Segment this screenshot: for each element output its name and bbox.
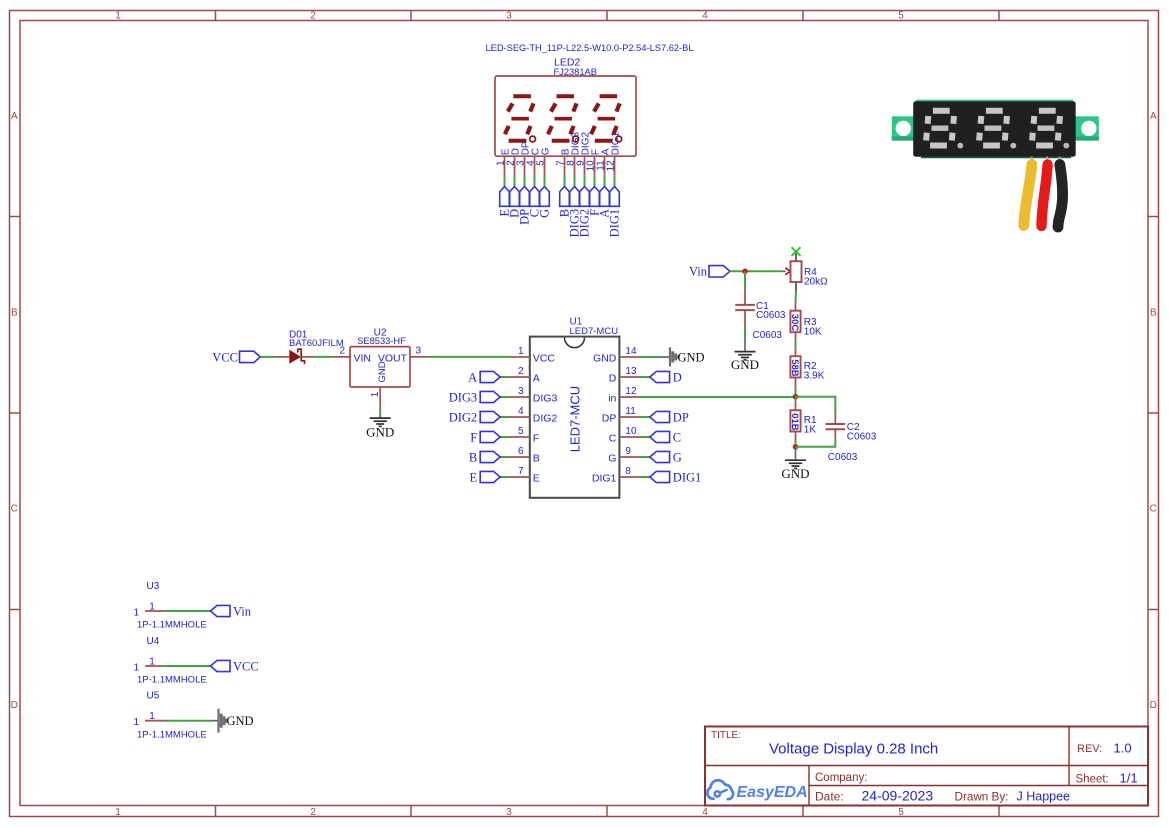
U1 pin 5 (F) left	[510, 426, 539, 444]
LED2 pin 10 (F) stub, number and name	[585, 149, 601, 176]
svg-text:3: 3	[506, 807, 512, 818]
LED2 pin 2 (D) stub, number and name	[505, 148, 521, 176]
wire U5 pin 1 to GND	[165, 720, 211, 722]
svg-text:DIG1: DIG1	[673, 470, 701, 484]
svg-text:C: C	[11, 503, 18, 514]
svg-text:DIG1: DIG1	[608, 209, 622, 237]
svg-text:10: 10	[625, 426, 637, 437]
U1 pin 10 (C) right	[609, 426, 640, 444]
wire U1 pin 11 to port DP	[639, 416, 649, 418]
trimmer R4 20k	[781, 253, 828, 288]
svg-text:1P-1.1MMHOLE: 1P-1.1MMHOLE	[137, 729, 207, 740]
wire U1 pin 10 to port C	[639, 436, 649, 438]
svg-text:A: A	[1150, 111, 1157, 122]
svg-text:1: 1	[133, 607, 139, 618]
svg-text:3: 3	[518, 386, 524, 397]
svg-text:E: E	[533, 472, 540, 484]
svg-text:13: 13	[625, 366, 637, 377]
svg-text:B: B	[469, 450, 477, 464]
svg-text:1K: 1K	[804, 425, 817, 436]
svg-text:C: C	[609, 432, 617, 444]
wire U1 pin 14 to ground	[639, 356, 660, 358]
svg-text:12: 12	[625, 386, 637, 397]
LED2 pin 12 (DIG1) stub, number and name	[605, 132, 621, 176]
svg-text:7: 7	[518, 466, 524, 477]
svg-text:C: C	[1150, 503, 1157, 514]
svg-text:F: F	[470, 430, 477, 444]
svg-text:DP: DP	[673, 410, 689, 424]
port B (U1 pin 6)	[469, 450, 500, 464]
port D (LED2 pin 2)	[508, 187, 522, 218]
wire LED2 pin 1 to port E	[504, 176, 506, 187]
svg-text:TITLE:: TITLE:	[711, 730, 741, 741]
regulator U2 SE8533-HF	[331, 327, 430, 408]
svg-text:Sheet:: Sheet:	[1076, 774, 1109, 786]
wire U1 pin 9 to port G	[639, 456, 649, 458]
LED2 digit 2 segments	[548, 96, 579, 142]
svg-text:A: A	[11, 111, 18, 122]
LED2 pin 7 (B) stub, number and name	[555, 148, 571, 176]
svg-text:A: A	[533, 372, 540, 384]
wire VCC port to D01 anode	[260, 356, 275, 358]
resistor R3 10K	[789, 302, 822, 341]
connector U3 1P-1.1MMHOLE	[133, 581, 206, 631]
wire port F to U1 pin 5	[500, 436, 510, 438]
IC U1 LED7-MCU	[530, 317, 620, 498]
svg-text:2: 2	[340, 345, 346, 356]
svg-text:E: E	[470, 470, 478, 484]
svg-text:3.9K: 3.9K	[804, 371, 825, 382]
svg-text:8: 8	[625, 466, 631, 477]
svg-text:2: 2	[310, 807, 316, 818]
wire LED2 pin 10 to port F	[594, 176, 596, 187]
wire LED2 pin 5 to port G	[544, 176, 546, 187]
wire LED2 pin 7 to port B	[564, 176, 566, 187]
junction Vin/C1	[742, 269, 748, 275]
svg-text:G: G	[673, 450, 682, 464]
svg-text:GND: GND	[731, 357, 759, 372]
svg-text:F: F	[533, 432, 539, 444]
svg-text:1.0: 1.0	[1114, 741, 1132, 756]
resistor R1 1K	[789, 397, 817, 440]
svg-text:24-09-2023: 24-09-2023	[862, 788, 934, 804]
svg-text:01B: 01B	[789, 413, 800, 431]
diode D01 BAT60JFILM	[275, 330, 344, 365]
svg-text:1/1: 1/1	[1120, 771, 1138, 786]
ground GND at U5	[211, 709, 254, 733]
connector U5 1P-1.1MMHOLE	[133, 691, 206, 741]
svg-text:BAT60JFILM: BAT60JFILM	[289, 338, 344, 349]
resistor R2 3.9K	[789, 348, 825, 386]
svg-text:DIG3: DIG3	[533, 392, 558, 404]
svg-text:EasyEDA: EasyEDA	[737, 784, 808, 801]
ground GND under C1	[731, 343, 759, 372]
svg-text:Vin: Vin	[689, 265, 708, 279]
port DIG3 (LED2 pin 8)	[568, 187, 582, 238]
svg-text:1: 1	[115, 807, 121, 818]
svg-text:LED-SEG-TH_11P-L22.5-W10.0-P2.: LED-SEG-TH_11P-L22.5-W10.0-P2.54-LS7.62-…	[485, 43, 693, 53]
svg-text:DIG2: DIG2	[533, 412, 558, 424]
port G (U1 pin 9)	[650, 450, 682, 464]
svg-text:U3: U3	[147, 581, 160, 592]
wire port DIG2 to U1 pin 4	[500, 416, 510, 418]
wire LED2 pin 11 to port A	[604, 176, 606, 187]
svg-text:DIG2: DIG2	[449, 410, 477, 424]
wire R2 to junction	[795, 386, 797, 397]
port D (U1 pin 13)	[650, 370, 682, 384]
svg-text:Drawn By:: Drawn By:	[955, 791, 1009, 804]
svg-text:30C: 30C	[789, 314, 800, 332]
LED2 pin 4 (C) stub, number and name	[525, 148, 541, 176]
U1 pin 14 (GND) right	[593, 346, 639, 364]
ground GND under U2	[366, 414, 394, 440]
wire port A to U1 pin 2	[500, 376, 510, 378]
part LED2 FJ2381AB 7-segment display symbol	[485, 43, 693, 237]
svg-text:4: 4	[702, 807, 708, 818]
svg-text:DIG3: DIG3	[449, 390, 477, 404]
wire R3 to R2	[795, 341, 797, 349]
port Vin	[689, 265, 730, 279]
port B (LED2 pin 7)	[558, 187, 572, 218]
junction R1/C2/GND	[793, 444, 799, 450]
wire U1 pin 13 to port D	[639, 376, 649, 378]
U1 pin 4 (DIG2) left	[510, 406, 557, 424]
port E (U1 pin 7)	[470, 470, 501, 484]
svg-text:1: 1	[133, 717, 139, 728]
svg-text:D: D	[609, 372, 617, 384]
wire R1 to bottom junction	[795, 440, 797, 447]
ground GND at U1 pin 14	[660, 347, 705, 366]
svg-text:G: G	[540, 147, 551, 155]
wire LED2 pin 12 to port DIG1	[614, 176, 616, 187]
port DIG1 (U1 pin 8)	[650, 470, 701, 484]
U1 pin 6 (B) left	[510, 446, 540, 464]
U1 pin 2 (A) left	[510, 366, 540, 384]
svg-text:G: G	[538, 209, 552, 218]
svg-text:VCC: VCC	[212, 350, 238, 364]
svg-text:1: 1	[149, 656, 155, 667]
svg-text:REV:: REV:	[1077, 743, 1102, 755]
LED2 pin 5 (G) stub, number and name	[535, 147, 551, 176]
svg-text:VIN: VIN	[354, 352, 372, 364]
svg-text:GND: GND	[593, 352, 617, 364]
svg-text:GND: GND	[227, 714, 254, 728]
wire R4 bottom to R3 top	[795, 282, 798, 302]
svg-text:B: B	[1150, 307, 1157, 318]
port Vin (U3)	[211, 604, 252, 618]
wire D01 cathode to U2 VIN	[314, 356, 331, 358]
LED2 digit 3 segments	[591, 96, 622, 142]
wire LED2 pin 3 to port DP	[524, 176, 526, 187]
wire port E to U1 pin 7	[500, 476, 510, 478]
svg-text:1P-1.1MMHOLE: 1P-1.1MMHOLE	[137, 675, 207, 686]
port DIG1 (LED2 pin 12)	[608, 187, 622, 238]
LED2 pin 8 (DIG3) stub, number and name	[565, 132, 581, 176]
svg-text:14: 14	[625, 346, 637, 357]
svg-text:U5: U5	[147, 691, 160, 702]
svg-text:GND: GND	[366, 424, 394, 439]
port A (U1 pin 2)	[468, 370, 500, 384]
U1 pin 12 (in) right	[608, 386, 639, 404]
svg-text:C0603: C0603	[756, 310, 786, 321]
wire LED2 pin 4 to port C	[534, 176, 536, 187]
svg-text:3: 3	[416, 345, 422, 356]
svg-text:B: B	[533, 452, 540, 464]
LED2 pin 11 (A) stub, number and name	[595, 148, 611, 176]
svg-text:GND: GND	[377, 361, 388, 382]
U1 pin 9 (G) right	[608, 446, 639, 464]
U1 pin 1 (VCC) left	[510, 346, 555, 364]
svg-text:J Happee: J Happee	[1017, 790, 1071, 804]
svg-text:9: 9	[625, 446, 631, 457]
svg-text:LED7-MCU: LED7-MCU	[570, 326, 619, 337]
svg-text:C0603: C0603	[828, 452, 858, 463]
svg-text:6: 6	[518, 446, 524, 457]
title block	[705, 727, 1148, 806]
no-connect flag X on R4 top	[792, 247, 801, 256]
svg-text:Voltage Display 0.28 Inch: Voltage Display 0.28 Inch	[769, 741, 938, 758]
svg-text:SE8533-HF: SE8533-HF	[357, 336, 406, 346]
svg-text:in: in	[608, 392, 616, 404]
svg-text:4: 4	[518, 406, 524, 417]
wire U1 pin 12 (in) to R2/R1 junction	[639, 396, 795, 398]
svg-text:C0603: C0603	[753, 330, 783, 341]
svg-text:5: 5	[518, 426, 524, 437]
port VCC (U4)	[211, 659, 259, 673]
svg-text:U4: U4	[147, 636, 160, 647]
svg-text:VCC: VCC	[533, 352, 556, 364]
LED2 pin 9 (DIG2) stub, number and name	[575, 132, 591, 176]
svg-text:GND: GND	[781, 466, 809, 481]
U1 pin 7 (E) left	[510, 466, 540, 484]
svg-text:5: 5	[898, 11, 904, 22]
port F (U1 pin 5)	[470, 430, 500, 444]
svg-text:1: 1	[370, 391, 381, 397]
svg-text:VCC: VCC	[233, 659, 259, 673]
wire LED2 pin 8 to port DIG3	[574, 176, 576, 187]
wire C1 to ground	[744, 326, 746, 343]
svg-text:C0603: C0603	[847, 431, 877, 442]
wire Vin port to R4 wiper	[730, 270, 781, 272]
svg-text:2: 2	[310, 11, 316, 22]
svg-text:GND: GND	[678, 350, 705, 364]
svg-text:12: 12	[605, 160, 616, 172]
U1 pin 13 (D) right	[609, 366, 640, 384]
svg-text:58B: 58B	[789, 359, 800, 377]
svg-text:Vin: Vin	[233, 604, 252, 618]
svg-text:Date:: Date:	[815, 790, 844, 804]
port DIG2 (LED2 pin 9)	[578, 187, 592, 238]
svg-text:G: G	[608, 452, 616, 464]
wire U1 pin 8 to port DIG1	[639, 476, 649, 478]
photo of 0.28 inch voltage display module	[892, 100, 1099, 227]
svg-text:D: D	[1150, 700, 1157, 711]
svg-text:4: 4	[702, 11, 708, 22]
svg-text:5: 5	[535, 160, 546, 166]
svg-text:DIG1: DIG1	[592, 472, 617, 484]
svg-text:2: 2	[518, 366, 524, 377]
svg-text:3: 3	[506, 11, 512, 22]
LED2 digit 1 segments	[505, 96, 536, 142]
wire port B to U1 pin 6	[500, 456, 510, 458]
ground GND under R1	[781, 447, 809, 481]
port G (LED2 pin 5)	[538, 187, 552, 218]
U1 pin 11 (DP) right	[602, 406, 640, 424]
wire LED2 pin 9 to port DIG2	[584, 176, 586, 187]
svg-text:DIG1: DIG1	[610, 132, 621, 156]
port DP (U1 pin 11)	[650, 410, 689, 424]
svg-text:Company:: Company:	[815, 772, 867, 784]
svg-text:D: D	[673, 370, 682, 384]
svg-text:20kΩ: 20kΩ	[804, 277, 828, 288]
svg-text:LED7-MCU: LED7-MCU	[568, 386, 583, 452]
wire U2 GND pin to ground	[379, 409, 381, 414]
svg-text:B: B	[11, 307, 18, 318]
LED2 pin 1 (E) stub, number and name	[495, 148, 511, 176]
svg-text:11: 11	[625, 406, 636, 417]
svg-text:1: 1	[518, 346, 524, 357]
svg-text:1: 1	[133, 662, 139, 673]
svg-text:10K: 10K	[804, 327, 822, 338]
wire LED2 pin 2 to port D	[514, 176, 516, 187]
LED2 body outline	[495, 76, 636, 156]
junction R2/R1/in/C2	[793, 394, 799, 400]
U1 pin 8 (DIG1) right	[592, 466, 640, 484]
port A (LED2 pin 11)	[598, 187, 612, 218]
LED2 pin 3 (DP) stub, number and name	[515, 141, 531, 176]
svg-text:DP: DP	[602, 412, 617, 424]
wire port DIG3 to U1 pin 3	[500, 396, 510, 398]
port DP (LED2 pin 3)	[518, 187, 532, 225]
connector U4 1P-1.1MMHOLE	[133, 636, 206, 686]
svg-text:1P-1.1MMHOLE: 1P-1.1MMHOLE	[137, 620, 207, 631]
svg-text:5: 5	[898, 807, 904, 818]
port VCC (left)	[212, 350, 260, 364]
capacitor C1 C0603	[735, 271, 786, 341]
port E (LED2 pin 1)	[498, 187, 512, 217]
svg-text:C: C	[673, 430, 681, 444]
wire U3 pin 1 to Vin	[165, 610, 211, 612]
port C (LED2 pin 4)	[528, 187, 542, 218]
svg-text:A: A	[468, 370, 477, 384]
port DIG3 (U1 pin 3)	[449, 390, 500, 404]
svg-text:1: 1	[115, 11, 121, 22]
EasyEDA logo	[707, 780, 807, 801]
U1 pin 3 (DIG3) left	[510, 386, 557, 404]
wire U4 pin 1 to VCC	[165, 665, 211, 667]
svg-text:1: 1	[149, 601, 155, 612]
wire U2 VOUT to U1 VCC	[430, 356, 510, 358]
port C (U1 pin 10)	[650, 430, 681, 444]
port DIG2 (U1 pin 4)	[449, 410, 500, 424]
svg-text:1: 1	[149, 711, 155, 722]
capacitor C2 C0603	[796, 397, 877, 463]
svg-text:D: D	[11, 700, 18, 711]
port F (LED2 pin 10)	[588, 187, 602, 216]
